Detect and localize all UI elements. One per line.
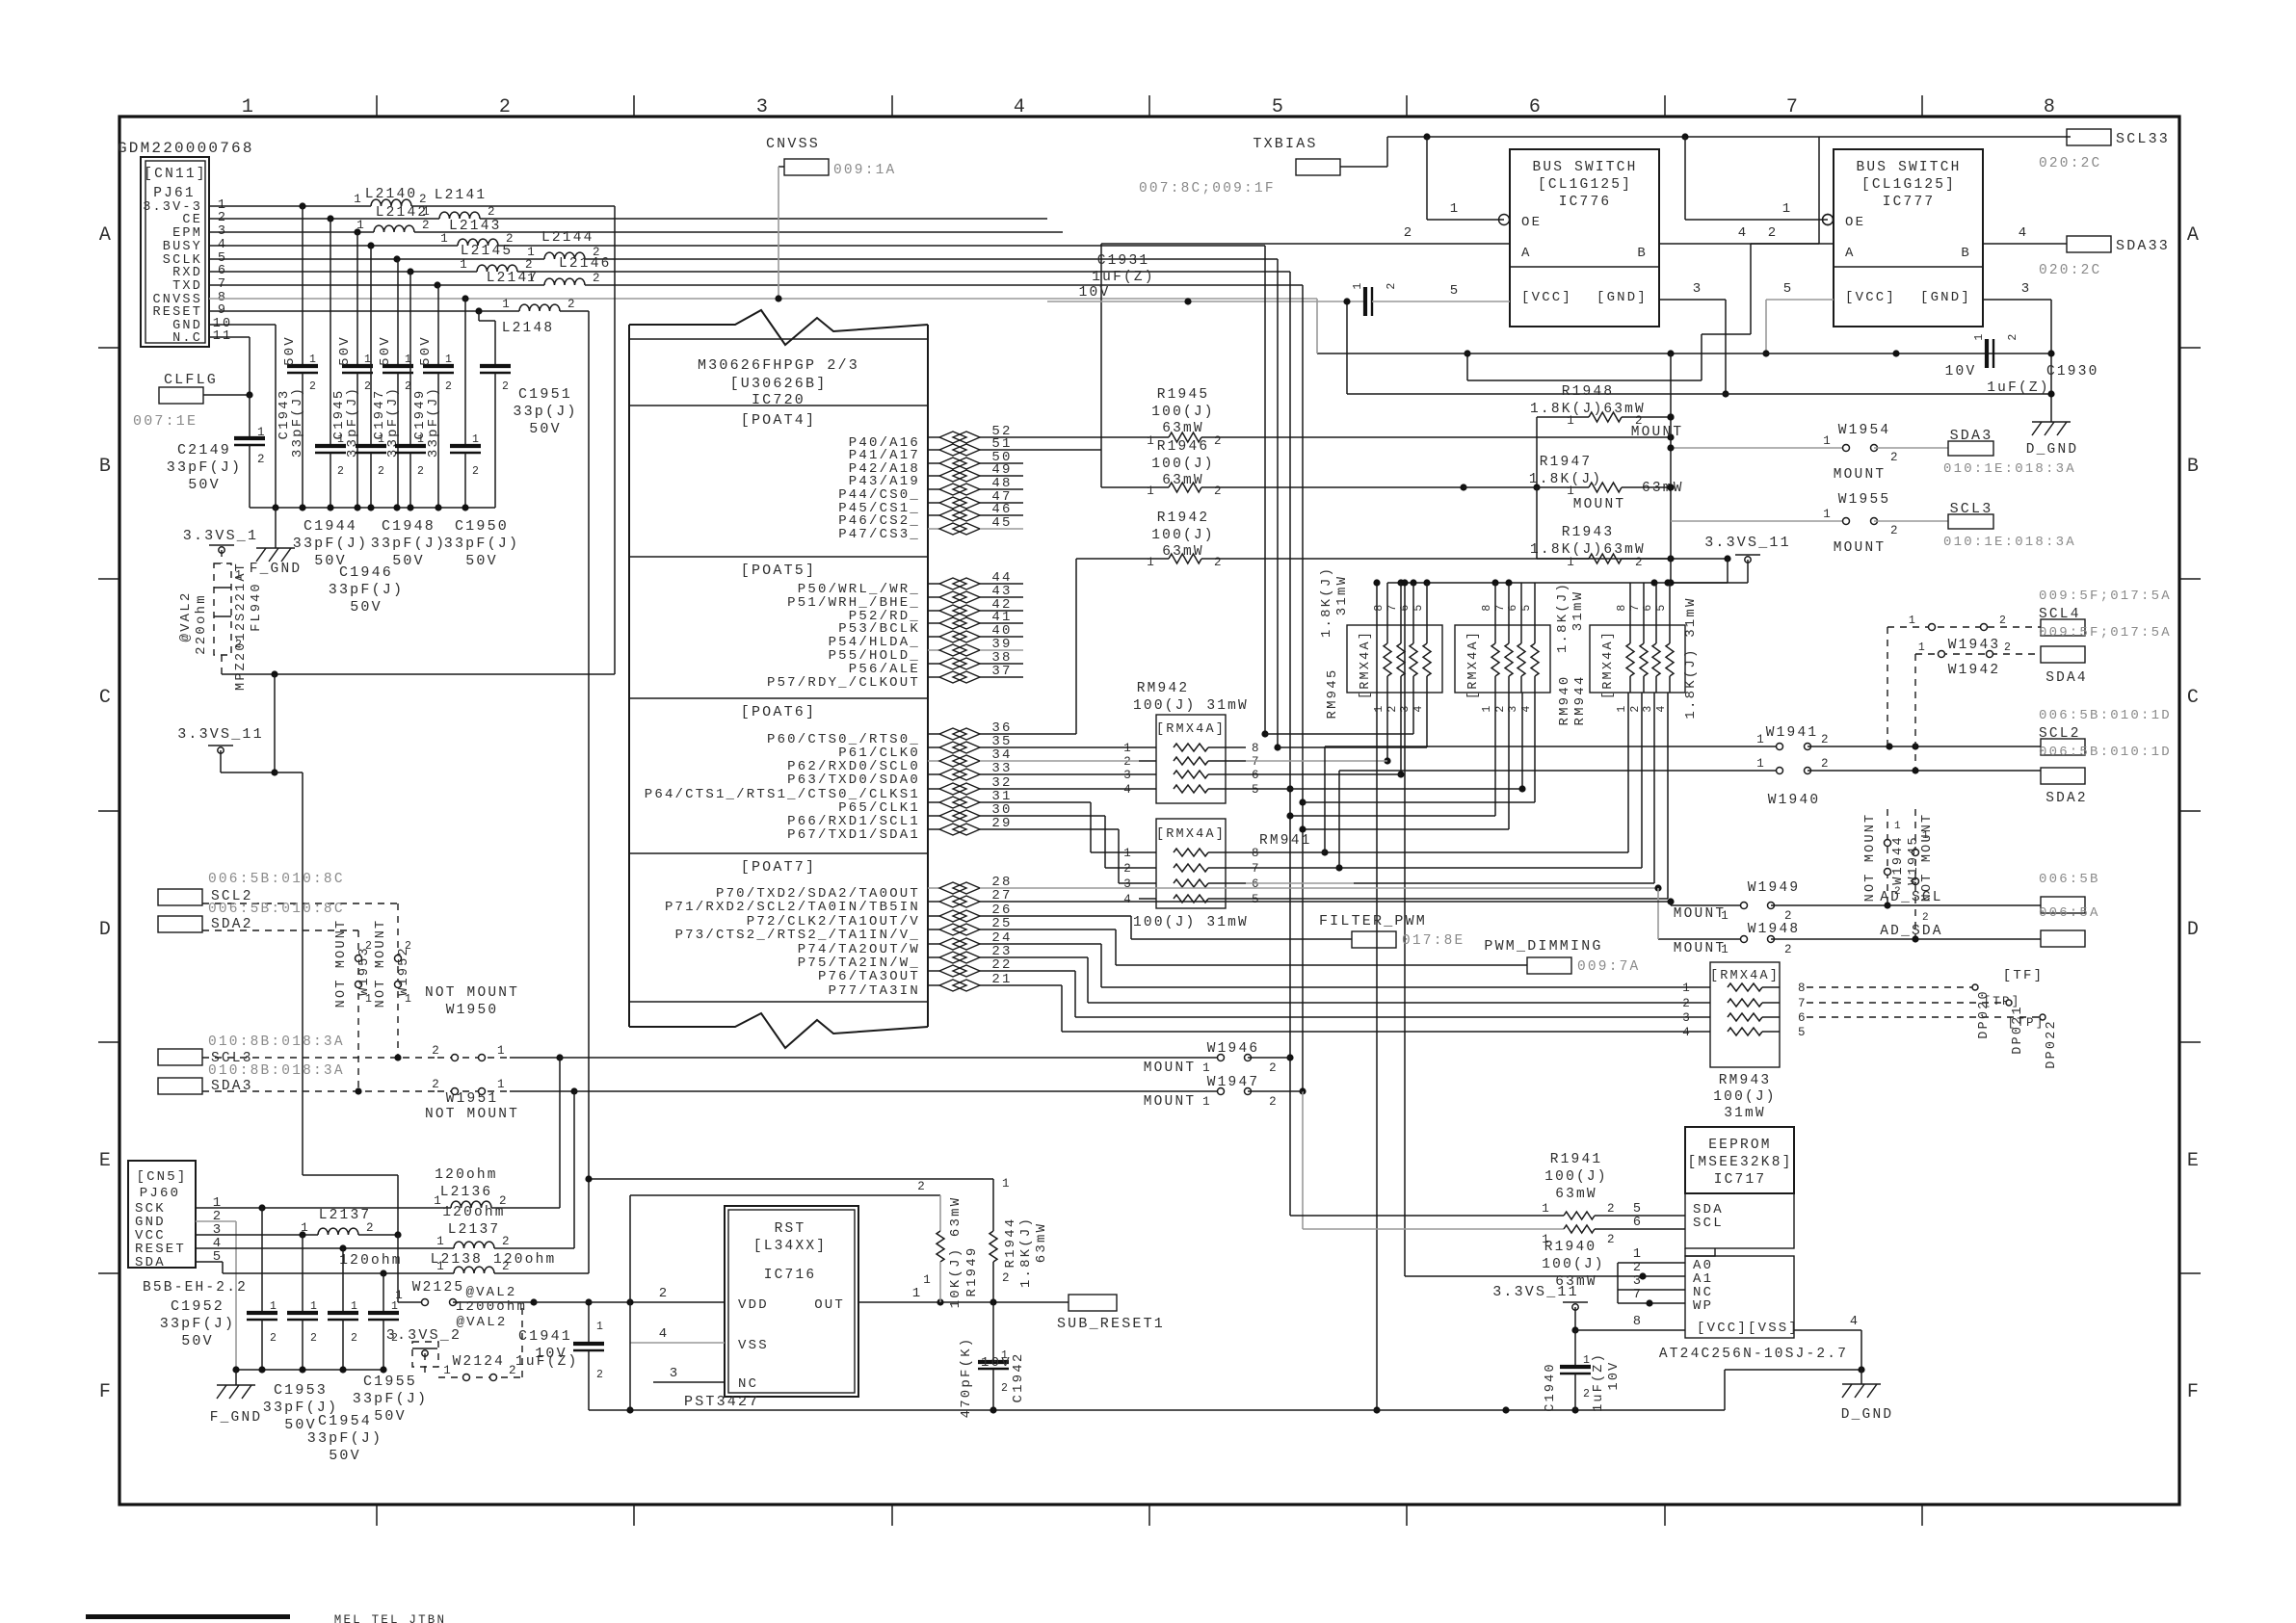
wire CN5 SDA <box>196 1262 454 1277</box>
wire CN11 pin7 TXD <box>209 281 1303 288</box>
svg-text:2: 2 <box>1269 1061 1279 1075</box>
svg-text:220ohm: 220ohm <box>194 593 209 655</box>
svg-text:3: 3 <box>1693 281 1703 297</box>
svg-text:1: 1 <box>443 1364 453 1377</box>
capacitor C1948 <box>395 272 426 508</box>
svg-text:50V: 50V <box>418 335 434 366</box>
wire P65 row <box>1023 802 1139 852</box>
wire IC776 A pin2 <box>1101 225 1510 450</box>
svg-text:[U30626B]: [U30626B] <box>730 376 828 392</box>
ground rail CN5 caps <box>232 1366 386 1373</box>
filter FL940 MPZ2012S221AT (dashed, not mount) <box>178 550 264 691</box>
pin 28 P70/TXD2/SDA2/TA0OUT <box>716 875 1023 902</box>
svg-text:[POAT7]: [POAT7] <box>741 859 816 876</box>
capacitor C1942 <box>959 1302 1026 1418</box>
svg-text:D_GND: D_GND <box>2026 442 2079 458</box>
svg-text:8: 8 <box>1252 847 1261 860</box>
svg-text:W1950: W1950 <box>446 1003 499 1018</box>
capacitor C1941 <box>518 1298 605 1410</box>
svg-text:R1941: R1941 <box>1550 1152 1603 1167</box>
svg-text:1: 1 <box>1909 615 1917 627</box>
svg-text:1: 1 <box>527 272 537 285</box>
bottom ground rail <box>589 1195 1865 1414</box>
svg-text:10V: 10V <box>981 1355 1012 1371</box>
pin 25 P73/CTS2_/RTS2_/TA1IN/V_ <box>675 916 1023 943</box>
svg-text:7: 7 <box>1633 1288 1643 1302</box>
wire IC777 A pin2 <box>1464 225 1834 380</box>
svg-text:1: 1 <box>460 258 469 272</box>
svg-text:50V: 50V <box>282 335 298 366</box>
resistor network RM942 RMX4A <box>1123 681 1260 803</box>
svg-text:NOT MOUNT: NOT MOUNT <box>334 919 349 1008</box>
svg-text:RM944: RM944 <box>1572 674 1588 725</box>
svg-text:120ohm: 120ohm <box>339 1253 402 1269</box>
svg-text:TXD: TXD <box>172 279 202 294</box>
svg-text:006:5B: 006:5B <box>2039 872 2100 887</box>
connector CN11 PJ61 <box>141 157 232 347</box>
wire IC777 VCC pin5 <box>1762 281 1834 357</box>
capacitor C1944 <box>315 219 346 508</box>
svg-text:50V: 50V <box>465 553 498 569</box>
wire P72 to FILTER_PWM <box>1023 916 1352 939</box>
net SDA2 (left) <box>158 916 358 932</box>
svg-text:2: 2 <box>422 219 432 232</box>
svg-text:7: 7 <box>1252 755 1261 769</box>
svg-text:5: 5 <box>1450 283 1461 299</box>
svg-text:3.3VS_11: 3.3VS_11 <box>177 726 264 743</box>
resistor R1948 (mount) <box>1530 384 1683 491</box>
svg-text:1: 1 <box>1894 821 1903 832</box>
svg-text:2: 2 <box>659 1286 670 1301</box>
capacitor C1945 <box>331 232 373 508</box>
svg-text:100(J) 31mW: 100(J) 31mW <box>1133 915 1249 930</box>
svg-text:P73/CTS2_/RTS2_/TA1IN/V_: P73/CTS2_/RTS2_/TA1IN/V_ <box>675 928 920 943</box>
svg-text:1: 1 <box>923 1273 933 1287</box>
svg-text:3.3VS_1: 3.3VS_1 <box>183 528 258 544</box>
jumper W1941 <box>1325 725 2041 750</box>
svg-text:F: F <box>99 1381 113 1403</box>
capacitor C1953 <box>263 1235 338 1433</box>
svg-text:2: 2 <box>419 193 429 206</box>
svg-text:E: E <box>2187 1150 2201 1172</box>
svg-text:RESET: RESET <box>152 305 202 320</box>
svg-text:4: 4 <box>1682 1026 1692 1039</box>
svg-text:P47/CS3_: P47/CS3_ <box>838 527 920 542</box>
svg-text:1: 1 <box>1782 201 1793 217</box>
svg-text:010:1E:018:3A: 010:1E:018:3A <box>1943 535 2076 550</box>
wire CN11 pin6 RXD <box>209 268 1290 275</box>
svg-text:PST3427: PST3427 <box>684 1394 759 1410</box>
svg-text:4: 4 <box>1014 96 1027 118</box>
svg-text:A: A <box>1521 246 1532 261</box>
svg-text:8: 8 <box>1798 982 1808 995</box>
capacitor C1951 <box>479 311 578 508</box>
svg-text:4: 4 <box>1738 225 1749 241</box>
svg-text:L2137: L2137 <box>448 1222 501 1238</box>
wire P62 row (grey) <box>1023 760 1139 762</box>
svg-text:1: 1 <box>309 353 318 366</box>
wire CN5 RESET <box>196 1244 454 1251</box>
svg-text:1: 1 <box>1373 703 1386 712</box>
svg-text:C1953: C1953 <box>274 1382 328 1399</box>
svg-text:MOUNT: MOUNT <box>1834 540 1887 556</box>
pin 27 P71/RXD2/SCL2/TA0IN/TB5IN <box>665 888 1023 915</box>
svg-text:100(J) 31mW: 100(J) 31mW <box>1133 698 1249 714</box>
svg-text:2: 2 <box>1607 1233 1617 1246</box>
inductor L2145 <box>461 244 602 259</box>
pin 46 P46/CS2_ <box>838 502 1023 529</box>
svg-text:2: 2 <box>1214 434 1224 448</box>
wire OUT to SUB_RESET1 <box>858 1286 1069 1306</box>
svg-text:3: 3 <box>1123 769 1133 782</box>
resistor network RM945 RMX4A <box>1347 583 1442 713</box>
svg-text:W1943: W1943 <box>1948 638 2001 653</box>
svg-text:007:8C;009:1F: 007:8C;009:1F <box>1139 181 1276 196</box>
capacitor C1947 <box>372 259 413 508</box>
svg-text:NOT MOUNT: NOT MOUNT <box>1863 813 1878 903</box>
svg-text:3: 3 <box>670 1366 680 1381</box>
svg-text:C1946: C1946 <box>339 564 393 581</box>
svg-text:2: 2 <box>1768 225 1779 241</box>
svg-text:020:2C: 020:2C <box>2039 156 2101 171</box>
inductor L2147 <box>487 271 602 286</box>
svg-text:10V: 10V <box>1079 285 1111 301</box>
pin 49 P43/A19 <box>849 462 1023 489</box>
svg-text:21: 21 <box>991 972 1012 987</box>
svg-text:MPZ2012S221AT: MPZ2012S221AT <box>234 562 249 691</box>
bus switch IC776 CL1G125 <box>1499 149 1660 327</box>
svg-text:1: 1 <box>1616 703 1628 712</box>
svg-text:FL940: FL940 <box>250 582 264 632</box>
svg-text:1.8K(J): 1.8K(J) <box>1555 582 1570 653</box>
svg-text:IC716: IC716 <box>764 1268 817 1283</box>
svg-text:SCL33: SCL33 <box>2116 131 2170 147</box>
svg-text:C1950: C1950 <box>455 518 509 535</box>
svg-text:P63/TXD0/SDA0: P63/TXD0/SDA0 <box>787 772 920 788</box>
wire P64 row <box>1023 788 1139 790</box>
jumper W1943 (dashed) <box>1887 615 2041 653</box>
svg-text:2: 2 <box>1583 1388 1592 1400</box>
svg-text:[RMX4A]: [RMX4A] <box>1156 827 1226 842</box>
svg-text:NOT MOUNT: NOT MOUNT <box>425 985 519 1001</box>
wire P71 to AD_SCL <box>1023 898 1675 905</box>
capacitor C2149 <box>167 395 267 508</box>
wire CN11 pin8 CNVSS (grey) <box>209 295 1317 301</box>
svg-text:100(J): 100(J) <box>1151 457 1214 472</box>
svg-text:1: 1 <box>1202 1061 1212 1075</box>
svg-text:W1942: W1942 <box>1948 663 2001 678</box>
wire P76 to RM943 pin3 <box>1023 971 1698 1017</box>
svg-text:[GND]: [GND] <box>1597 290 1648 305</box>
svg-text:C: C <box>99 687 113 709</box>
svg-text:100(J): 100(J) <box>1713 1089 1776 1105</box>
wire CN11 pin3 EPM <box>209 228 1063 235</box>
svg-text:R1948: R1948 <box>1562 384 1615 400</box>
svg-text:1uF(Z): 1uF(Z) <box>1592 1352 1606 1412</box>
capacitor C1950 <box>450 299 481 508</box>
svg-text:1: 1 <box>395 1289 405 1302</box>
svg-text:4: 4 <box>1850 1315 1860 1329</box>
svg-text:33pF(J): 33pF(J) <box>167 459 242 476</box>
svg-text:8: 8 <box>2044 96 2057 118</box>
svg-text:8: 8 <box>1373 602 1386 611</box>
svg-text:PJ61: PJ61 <box>153 186 196 201</box>
power 3.3VS_11 (eeprom) <box>1492 1284 1685 1334</box>
capacitor C1946 <box>356 246 386 508</box>
svg-text:33pF(J): 33pF(J) <box>160 1316 235 1332</box>
svg-text:L2145: L2145 <box>461 244 514 259</box>
svg-text:1: 1 <box>502 298 512 311</box>
capacitor C1940 <box>1544 1330 1622 1412</box>
svg-text:C1941: C1941 <box>518 1328 572 1345</box>
svg-text:@VAL2: @VAL2 <box>178 590 194 641</box>
svg-text:1: 1 <box>1823 508 1833 521</box>
svg-text:2: 2 <box>310 1332 319 1345</box>
svg-text:7: 7 <box>1252 862 1261 876</box>
pin 42 P52/RD_ <box>849 597 1023 624</box>
svg-text:1.8K(J)63mW: 1.8K(J)63mW <box>1530 402 1646 417</box>
svg-text:10V: 10V <box>535 1346 567 1362</box>
svg-text:1: 1 <box>1823 434 1833 448</box>
microcontroller IC720 M30626FHPGP <box>629 310 928 1048</box>
svg-text:R1940: R1940 <box>1544 1240 1597 1255</box>
svg-text:CE: CE <box>182 213 202 227</box>
svg-text:W1955: W1955 <box>1838 492 1891 508</box>
wire CN11 pin2 CE <box>209 215 1047 222</box>
svg-text:CNVSS: CNVSS <box>766 136 820 152</box>
ground F_GND (capacitor bank) <box>250 508 303 577</box>
inductor L2136 <box>434 1058 560 1208</box>
svg-text:L2142: L2142 <box>376 205 429 221</box>
pin 41 P53/BCLK <box>838 610 1023 637</box>
svg-text:2: 2 <box>1784 943 1794 956</box>
resistor R1941 <box>1290 1152 1685 1219</box>
svg-text:27: 27 <box>991 888 1012 903</box>
svg-text:63mW: 63mW <box>1162 473 1204 488</box>
wire IC777 B pin4 / net SDA33 <box>1984 225 2170 278</box>
svg-text:P57/RDY_/CLKOUT: P57/RDY_/CLKOUT <box>767 675 920 691</box>
svg-text:3: 3 <box>1633 1274 1643 1289</box>
pin 50 P42/A18 <box>849 450 1023 477</box>
svg-text:MEL TEL JTBN: MEL TEL JTBN <box>334 1613 446 1623</box>
net AD_SCL <box>1880 890 2085 913</box>
svg-text:006:5B:010:1D: 006:5B:010:1D <box>2039 708 2172 723</box>
svg-text:8: 8 <box>1481 602 1493 611</box>
wire P61 row <box>1023 746 1139 748</box>
svg-text:OUT: OUT <box>814 1297 845 1313</box>
svg-text:L2138 120ohm: L2138 120ohm <box>431 1252 557 1268</box>
svg-text:P76/TA3OUT: P76/TA3OUT <box>818 969 920 984</box>
svg-text:50V: 50V <box>378 335 393 366</box>
svg-text:AT24C256N-10SJ-2.7: AT24C256N-10SJ-2.7 <box>1659 1347 1848 1362</box>
jumper W1949 (mount) <box>1671 880 2041 923</box>
svg-text:L2136: L2136 <box>440 1185 493 1200</box>
svg-text:3.3VS_11: 3.3VS_11 <box>1492 1284 1579 1300</box>
svg-text:2: 2 <box>1269 1095 1279 1109</box>
svg-text:DP022: DP022 <box>2045 1019 2059 1069</box>
svg-text:1: 1 <box>365 993 374 1006</box>
svg-text:2: 2 <box>405 940 413 953</box>
svg-text:2: 2 <box>365 940 374 953</box>
wire VDD rail <box>534 1286 725 1306</box>
svg-text:1: 1 <box>1481 703 1493 712</box>
svg-text:4: 4 <box>659 1326 670 1342</box>
svg-text:MOUNT: MOUNT <box>1144 1094 1197 1110</box>
svg-text:6: 6 <box>1252 769 1261 782</box>
resistor R1947 (mount) <box>1464 455 1684 512</box>
svg-text:006:5A: 006:5A <box>2039 905 2100 921</box>
svg-text:10K(J) 63mW: 10K(J) 63mW <box>948 1196 963 1309</box>
wire CN5 GND (grey) <box>196 1221 236 1370</box>
pin 44 P50/WRL_/WR_ <box>798 570 1023 597</box>
svg-text:6: 6 <box>1252 877 1261 891</box>
svg-text:1: 1 <box>405 353 413 366</box>
svg-text:[CN5]: [CN5] <box>136 1169 187 1185</box>
pin 26 P72/CLK2/TA1OUT/V <box>747 903 1023 929</box>
wire EEPROM VSS pin4 to D_GND <box>1794 1315 1861 1370</box>
border frame <box>119 117 2179 1505</box>
svg-text:L2141: L2141 <box>435 188 488 203</box>
svg-text:5: 5 <box>1252 783 1261 797</box>
jumper W2124 (dashed) <box>438 1302 578 1381</box>
svg-text:017:8E: 017:8E <box>1402 933 1465 949</box>
svg-text:[RMX4A]: [RMX4A] <box>1466 630 1481 699</box>
svg-text:C: C <box>2187 687 2201 709</box>
svg-text:C1948: C1948 <box>382 518 435 535</box>
bus switch IC777 CL1G125 <box>1823 149 1984 327</box>
svg-text:SDA: SDA <box>135 1255 166 1270</box>
svg-text:1.8K(J)63mW: 1.8K(J)63mW <box>1530 542 1646 558</box>
jumper W1950 (not mount) <box>394 985 563 1061</box>
svg-text:6: 6 <box>1798 1011 1808 1025</box>
svg-text:W1948: W1948 <box>1748 922 1801 937</box>
svg-text:F_GND: F_GND <box>250 562 303 577</box>
svg-text:010:1E:018:3A: 010:1E:018:3A <box>1943 461 2076 477</box>
jumper W1948 (mount) <box>1658 922 2041 956</box>
svg-text:33pF(J): 33pF(J) <box>307 1430 383 1447</box>
svg-text:[VCC]: [VCC] <box>1845 290 1896 305</box>
pin 36 P60/CTS0_/RTS0_ <box>767 720 1023 747</box>
svg-text:1: 1 <box>1756 733 1766 746</box>
svg-text:@VAL2: @VAL2 <box>456 1315 507 1330</box>
resistor R1945 <box>1023 387 1675 448</box>
svg-text:BUS SWITCH: BUS SWITCH <box>1532 160 1637 175</box>
svg-text:VDD: VDD <box>738 1297 769 1313</box>
svg-text:B: B <box>1961 246 1971 261</box>
pin 22 P76/TA3OUT <box>818 957 1023 984</box>
jumper W1942 (dashed) <box>1915 641 2041 678</box>
pin 38 P56/ALE <box>849 650 1023 677</box>
jumper W1954 / net SDA3 (right) <box>1667 423 2075 483</box>
wire P66 row <box>1023 816 1139 868</box>
svg-text:1: 1 <box>497 1078 507 1091</box>
svg-text:8: 8 <box>1633 1315 1643 1329</box>
wire IC777 GND pin3 + D_GND <box>1984 281 2078 458</box>
svg-text:6: 6 <box>1642 602 1654 611</box>
wire IC777 OE pin1 <box>1685 137 1834 225</box>
wire CN11 pin5 SCLK <box>209 255 1278 262</box>
svg-text:R1949: R1949 <box>964 1245 980 1296</box>
svg-text:W1947: W1947 <box>1207 1075 1260 1090</box>
wire P74 to RM943 pin1 <box>1023 944 1698 987</box>
svg-text:1: 1 <box>1567 414 1576 428</box>
wires RM944 bottom pins <box>1246 693 1668 899</box>
svg-text:1: 1 <box>257 426 267 439</box>
svg-text:7: 7 <box>1786 96 1800 118</box>
svg-text:P67/TXD1/SDA1: P67/TXD1/SDA1 <box>787 827 920 843</box>
pin 48 P44/CS0_ <box>838 476 1023 503</box>
inductor L2138 <box>431 674 589 1273</box>
jumper W1952 (not mount, dashed) <box>374 903 413 1058</box>
svg-text:B5B-EH-2.2: B5B-EH-2.2 <box>143 1280 248 1296</box>
label C1944 <box>293 518 368 569</box>
svg-text:1200ohm: 1200ohm <box>456 1299 527 1315</box>
svg-text:1: 1 <box>1721 909 1730 923</box>
svg-text:1: 1 <box>1721 943 1730 956</box>
svg-text:IC717: IC717 <box>1714 1172 1767 1188</box>
bottom-left black bar <box>86 1614 290 1619</box>
svg-text:63mW: 63mW <box>1642 481 1684 496</box>
svg-text:C1955: C1955 <box>363 1374 417 1390</box>
svg-text:B: B <box>99 456 113 478</box>
svg-text:470pF(K): 470pF(K) <box>959 1337 974 1419</box>
svg-text:120ohm: 120ohm <box>442 1205 505 1220</box>
svg-text:33p(J): 33p(J) <box>513 404 577 420</box>
svg-text:50V: 50V <box>188 477 221 493</box>
pin 24 P74/TA2OUT/W <box>798 930 1023 957</box>
svg-text:33pF(J): 33pF(J) <box>371 536 446 552</box>
svg-text:50V: 50V <box>350 599 383 615</box>
svg-text:2: 2 <box>1922 912 1931 924</box>
svg-text:5: 5 <box>1412 602 1425 611</box>
svg-text:NOT MOUNT: NOT MOUNT <box>425 1107 519 1122</box>
svg-text:[VCC][VSS]: [VCC][VSS] <box>1697 1321 1799 1336</box>
svg-text:IC777: IC777 <box>1883 195 1936 210</box>
net SDA4 <box>2041 646 2088 686</box>
svg-text:10V: 10V <box>1945 364 1977 380</box>
jumper W1951 (not mount) <box>355 1078 577 1122</box>
svg-text:1: 1 <box>1682 982 1692 995</box>
svg-text:L2140: L2140 <box>365 187 418 202</box>
pin 40 P54/HLDA_ <box>829 623 1023 650</box>
pin 37 P57/RDY_/CLKOUT <box>767 664 1023 691</box>
wire 3.3V distribution to bottom area <box>271 674 398 1235</box>
net SDA2 (right) <box>2041 768 2088 806</box>
svg-text:100(J): 100(J) <box>1151 405 1214 420</box>
inductor L2148 <box>502 298 589 674</box>
svg-text:[RMX4A]: [RMX4A] <box>1156 722 1226 737</box>
capacitor C1952 <box>160 1208 278 1370</box>
svg-text:W1946: W1946 <box>1207 1041 1260 1057</box>
wire CN5 SCK <box>196 1204 451 1211</box>
svg-text:6: 6 <box>1529 96 1543 118</box>
net SUB_RESET1 <box>1057 1295 1165 1332</box>
svg-text:2: 2 <box>1386 703 1399 712</box>
wire CN5 VCC <box>196 1231 318 1238</box>
label C1946 <box>329 564 404 615</box>
wire CN11 pin1 3.3V-3 <box>209 202 615 209</box>
svg-text:D_GND: D_GND <box>1841 1407 1894 1423</box>
svg-text:2: 2 <box>417 465 426 478</box>
svg-text:L2146: L2146 <box>559 256 612 272</box>
svg-text:EEPROM: EEPROM <box>1708 1138 1771 1153</box>
wire VSS pin4 <box>630 1326 725 1343</box>
svg-text:NC: NC <box>738 1376 758 1392</box>
power 3.3VS_2 (dashed) <box>386 1327 462 1377</box>
svg-text:C1930: C1930 <box>2046 364 2099 380</box>
svg-text:1: 1 <box>1583 1354 1592 1367</box>
svg-text:RM945: RM945 <box>1325 668 1340 719</box>
